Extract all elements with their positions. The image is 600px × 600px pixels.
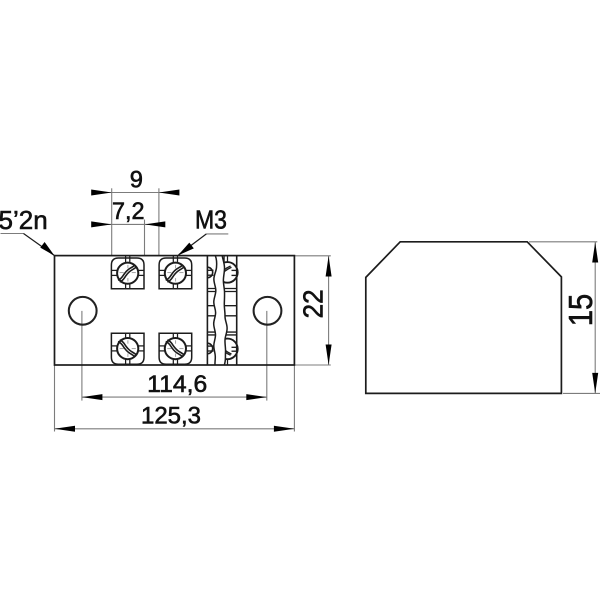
svg-text:15: 15 (562, 294, 599, 327)
svg-text:22: 22 (298, 289, 329, 318)
svg-text:125,3: 125,3 (141, 402, 201, 429)
svg-text:9: 9 (130, 168, 143, 194)
svg-text:M3: M3 (195, 206, 227, 234)
svg-text:5’2n: 5’2n (0, 205, 48, 235)
svg-text:114,6: 114,6 (147, 371, 207, 398)
svg-text:7,2: 7,2 (112, 199, 145, 225)
